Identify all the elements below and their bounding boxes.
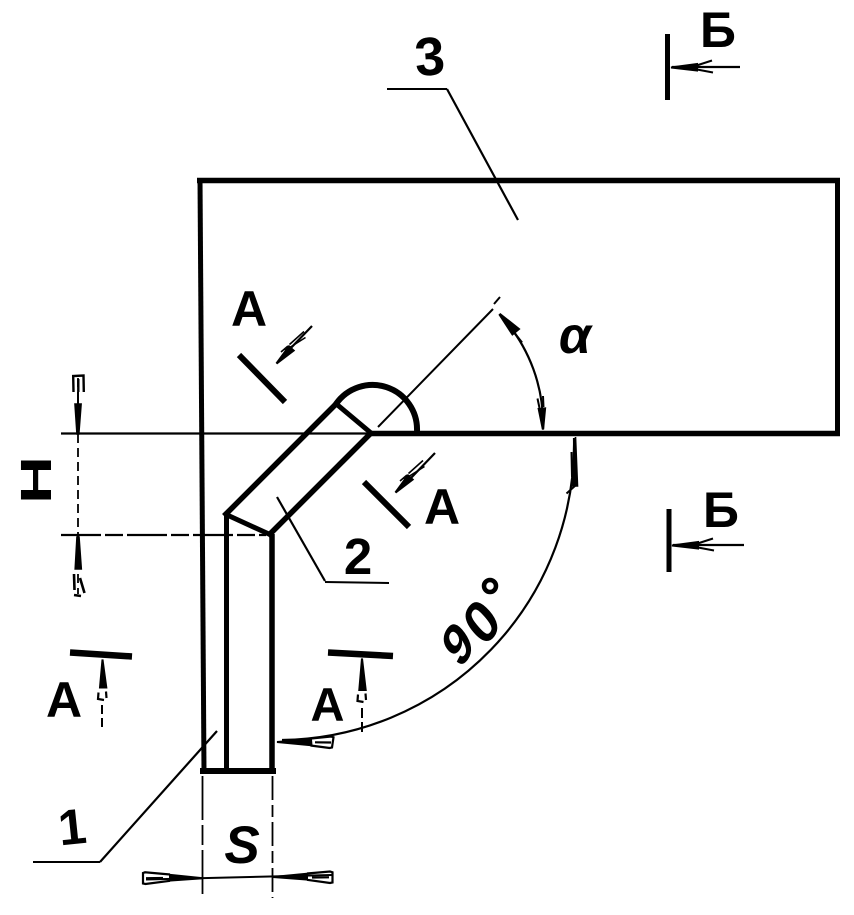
svg-text:1: 1 [55, 798, 89, 857]
part 3 sheet: right edge [835, 178, 840, 436]
part 2 / part 1 miter edge [225, 514, 271, 535]
section A marker mid: arrowhead [396, 476, 413, 493]
alpha arc bottom arrow pointing down [539, 409, 545, 430]
S left arrow pointing right [170, 875, 203, 881]
section B marker bottom: arrowhead pointing left [672, 542, 698, 549]
part 3 sheet: bottom edge (thick, from bend vertex to right) [371, 431, 840, 437]
part 3 sheet: top edge [197, 178, 840, 184]
svg-text:A: A [311, 678, 345, 731]
part 2 upper edge [224, 402, 338, 516]
label 3 leader underline [387, 88, 447, 90]
section A marker bottom-left: arrow shaft [101, 704, 103, 727]
label 2 leader line [277, 497, 325, 581]
label 3 leader line [447, 89, 518, 220]
section B marker bottom: cutting plane tick [667, 509, 672, 572]
section A marker mid: thick tick [364, 482, 409, 527]
H dimension arrow pointing down [75, 404, 81, 434]
label 90 degrees: digit 9 [433, 609, 483, 680]
S right arrow pointing left [273, 874, 307, 880]
H dimension line [77, 378, 79, 594]
svg-text:Б: Б [700, 2, 736, 58]
svg-text:3: 3 [413, 26, 447, 88]
section B marker top: cutting plane tick [665, 34, 670, 100]
part 1 right edge [269, 534, 275, 771]
section A marker upper: flare strokes [281, 332, 306, 353]
90 arc bottom-left arrow pointing left [277, 740, 312, 746]
svg-text:2: 2 [344, 528, 372, 585]
section A marker bottom-left: arrowhead pointing up [100, 660, 106, 688]
svg-text:A: A [46, 672, 82, 728]
section A marker bottom-left: thick tick [70, 653, 132, 657]
section A marker mid: flare strokes [400, 461, 425, 482]
alpha apex tick [494, 297, 500, 304]
H dimension arrow pointing up [75, 537, 81, 569]
H lower extension line [61, 534, 266, 536]
svg-text:A: A [424, 479, 460, 535]
svg-text:Н: Н [12, 456, 61, 504]
section B marker top: arrow line [672, 66, 740, 68]
svg-text:α: α [559, 307, 594, 365]
S right extension line [272, 776, 274, 898]
section A marker bottom-right: arrowhead pointing up [359, 659, 365, 691]
section A marker upper: arrowhead [277, 347, 294, 364]
alpha arc [502, 317, 543, 429]
H upper extension line (thin horizontal at bend level) [61, 432, 371, 434]
S dimension line [146, 875, 332, 880]
label 1 leader underline [33, 861, 100, 863]
label 1 leader line [100, 731, 217, 862]
section A marker mid: arrow line [410, 453, 435, 479]
90 arc top arrow pointing up [573, 437, 578, 486]
section B marker bottom: arrow line [673, 544, 744, 546]
S left extension line [202, 776, 204, 898]
label 90 degrees: digit 0 [452, 586, 511, 658]
alpha vertex 45-degree line [378, 309, 493, 427]
part 1 bottom edge [200, 768, 276, 774]
part 1 left edge [224, 515, 229, 771]
part 2 lower edge [268, 432, 372, 536]
bend bead semicircular arc [336, 385, 417, 431]
section A marker upper: arrow line [288, 326, 312, 351]
section A marker bottom-right: thick tick [328, 653, 393, 657]
svg-text:Б: Б [703, 482, 739, 538]
label 2 leader underline [325, 582, 389, 583]
section B marker top: arrowhead pointing left [671, 64, 697, 71]
svg-text:A: A [231, 281, 267, 337]
sheet left edge (runs from part 3 down to part 1 bottom) [200, 178, 204, 772]
label 90 degrees: degree ring [484, 580, 496, 592]
part 2 end edge at bend [334, 402, 371, 433]
svg-text:S: S [224, 816, 259, 875]
alpha arc top arrow (along arc, pointing to apex) [500, 314, 519, 334]
section A marker bottom-right: arrow shaft [361, 706, 363, 732]
90 degree arc [282, 438, 574, 740]
section A marker upper: thick tick [239, 355, 285, 402]
